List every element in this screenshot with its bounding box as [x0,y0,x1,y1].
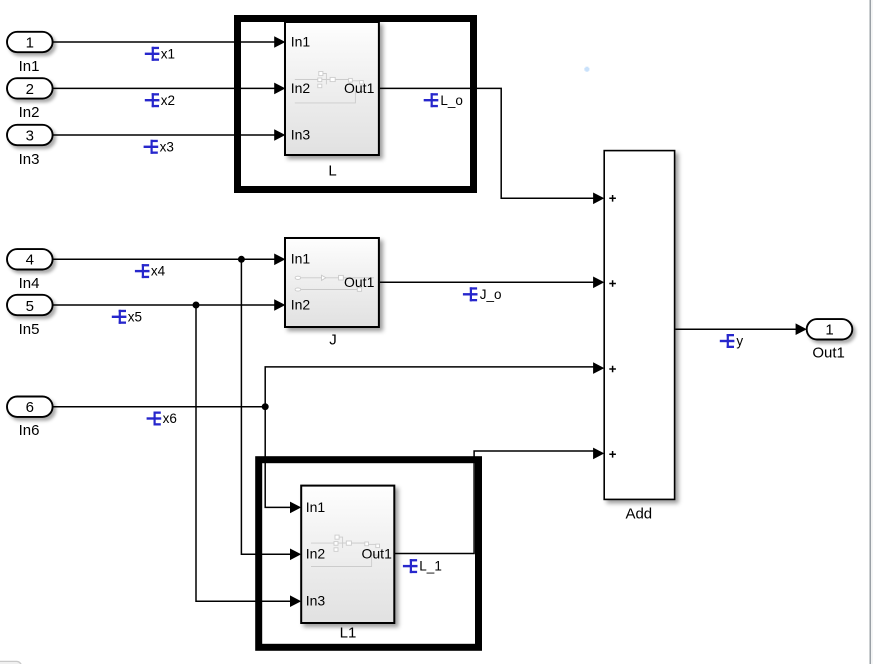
svg-text:In1: In1 [306,499,326,515]
svg-text:In3: In3 [19,151,40,168]
svg-text:2: 2 [26,81,34,98]
svg-text:In1: In1 [291,33,311,49]
svg-text:y: y [736,334,743,349]
svg-text:x5: x5 [128,309,142,324]
svg-text:J: J [329,332,337,349]
svg-text:3: 3 [26,127,34,144]
svg-text:L: L [328,162,336,179]
svg-text:Out1: Out1 [362,546,393,562]
svg-text:In3: In3 [291,126,311,142]
svg-text:L1: L1 [340,625,357,642]
svg-text:5: 5 [26,298,34,315]
svg-text:In2: In2 [19,104,40,121]
svg-text:x3: x3 [160,139,174,154]
svg-text:6: 6 [26,399,34,416]
svg-text:x4: x4 [151,264,166,279]
svg-text:Out1: Out1 [344,274,375,290]
svg-text:In2: In2 [291,80,311,96]
svg-text:Out1: Out1 [812,344,845,361]
svg-text:In3: In3 [306,593,326,609]
svg-text:In2: In2 [306,546,326,562]
svg-text:L_1: L_1 [419,559,442,574]
svg-text:In4: In4 [19,275,40,292]
svg-text:1: 1 [825,322,833,339]
svg-text:In6: In6 [19,422,40,439]
svg-text:4: 4 [26,252,34,269]
svg-text:1: 1 [26,34,34,51]
svg-text:x2: x2 [161,93,175,108]
svg-text:x1: x1 [161,46,175,61]
svg-text:In2: In2 [291,296,311,312]
svg-text:L_o: L_o [440,93,463,108]
svg-text:In5: In5 [19,321,40,338]
svg-text:Add: Add [625,505,652,522]
svg-text:Out1: Out1 [344,80,375,96]
svg-text:J_o: J_o [480,287,502,302]
svg-text:In1: In1 [19,58,40,75]
svg-text:x6: x6 [163,411,177,426]
svg-text:In1: In1 [291,251,311,267]
